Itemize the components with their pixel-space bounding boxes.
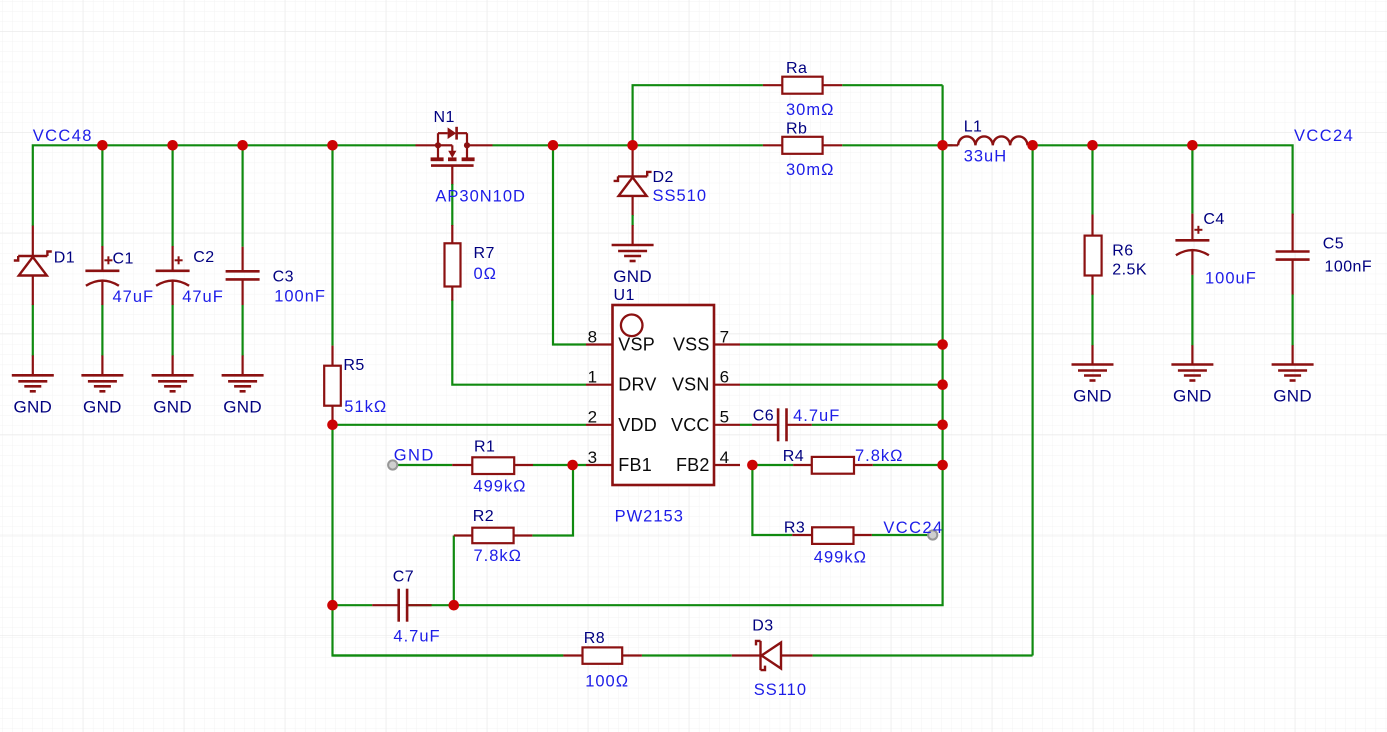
wire C7 junction to bottom corner (333, 605, 564, 655)
wire FB2 junction to R4 (752, 464, 793, 466)
svg-text:GND: GND (223, 397, 262, 416)
svg-text:GND: GND (1173, 387, 1212, 406)
resistor R7 pin bottom (451, 287, 453, 301)
svg-text:AP30N10D: AP30N10D (435, 188, 526, 206)
svg-text:0Ω: 0Ω (474, 265, 498, 283)
svg-text:7.8kΩ: 7.8kΩ (855, 447, 904, 465)
wire C4 top (1191, 145, 1193, 213)
wire Ra branch left vertical (633, 85, 763, 145)
capacitor C3 (226, 270, 260, 273)
svg-text:R7: R7 (474, 245, 495, 262)
wire R5 column top (331, 145, 333, 345)
svg-text:SS510: SS510 (653, 187, 708, 205)
svg-text:VCC: VCC (671, 415, 710, 435)
resistor R5 pins (331, 346, 333, 366)
wire rail L1 to VCC24 corner (1033, 145, 1293, 215)
wire rail mid (N1 to Rb) (493, 144, 763, 146)
svg-text:4.7uF: 4.7uF (793, 407, 840, 425)
diode D2 anode stub (631, 225, 633, 245)
wire VSS pin7 to bus (740, 343, 943, 345)
U1 pin 1 stub (586, 384, 613, 386)
resistor R1 (472, 457, 514, 474)
junction node C7 right (449, 600, 460, 611)
svg-text:GND: GND (613, 267, 652, 286)
U1 pin 7 stub (714, 343, 740, 345)
diode D2 pin bottom (631, 196, 633, 216)
diode D1 pin bottom (32, 275, 34, 305)
svg-text:FB2: FB2 (676, 455, 710, 475)
resistor R5 (324, 366, 341, 406)
op-amp U1 chip body (613, 305, 715, 485)
junction node VDD-R5 (327, 420, 338, 431)
wire D2 anode (631, 215, 633, 226)
capacitor C2 (156, 269, 190, 272)
U1 pin 2 stub (586, 424, 613, 426)
svg-text:DRV: DRV (618, 375, 656, 395)
svg-text:R5: R5 (343, 357, 364, 374)
wire VCC pin5 to C6 (740, 424, 752, 426)
capacitor C5 (1276, 250, 1310, 253)
wire C3 bottom to GND (242, 305, 244, 356)
svg-text:4: 4 (720, 448, 730, 467)
svg-text:R8: R8 (584, 630, 605, 647)
svg-text:GND: GND (394, 447, 435, 465)
wire R2 left leg down to C7 junction (453, 536, 455, 606)
capacitor C3 pin bottom (242, 279, 244, 305)
U1 pin 6 stub (714, 384, 740, 386)
resistor Rb pins (763, 144, 782, 146)
svg-text:R3: R3 (784, 520, 805, 537)
svg-text:R6: R6 (1112, 243, 1133, 260)
ground C5 (1291, 345, 1293, 364)
resistor R2 pins (454, 534, 473, 536)
wire right bus vertical x=942.6 (454, 85, 943, 605)
schottky diode D3 pins (732, 654, 761, 656)
wire C4 bottom to GND (1191, 275, 1193, 346)
diode D1 pin top (32, 226, 34, 256)
wire C6 to bus (812, 424, 943, 426)
svg-text:100nF: 100nF (274, 288, 326, 306)
svg-text:U1: U1 (614, 287, 635, 304)
svg-text:47uF: 47uF (182, 288, 224, 306)
svg-text:R4: R4 (783, 448, 804, 465)
capacitor C7 pins (372, 604, 399, 606)
diode D2 pin top (631, 145, 633, 176)
capacitor C7 (397, 589, 400, 622)
wire C2 top (172, 145, 174, 246)
U1 pin 3 stub (586, 464, 613, 466)
svg-text:SS110: SS110 (754, 681, 807, 699)
net port VCC24 (gray pin) (928, 530, 937, 539)
svg-text:C1: C1 (113, 251, 134, 268)
svg-text:GND: GND (1073, 387, 1112, 406)
svg-text:GND: GND (153, 397, 192, 416)
resistor R6 (1085, 236, 1102, 276)
svg-text:100nF: 100nF (1325, 259, 1373, 276)
svg-text:2.5K: 2.5K (1112, 262, 1147, 279)
wire L1 right to D3 vertical x=1032.6 (1031, 145, 1033, 655)
capacitor C4 pin top (1191, 214, 1193, 241)
svg-text:100uF: 100uF (1205, 270, 1257, 288)
schottky diode D3 (759, 641, 761, 670)
capacitor C1 (85, 269, 119, 272)
ground C3 (242, 355, 244, 375)
junction node C7 left (327, 600, 338, 611)
svg-text:R1: R1 (474, 439, 495, 456)
U1 pin1 marker circle (621, 315, 643, 337)
svg-text:VSP: VSP (618, 335, 655, 355)
svg-text:6: 6 (720, 368, 730, 387)
wire VDD row from R5 junction (333, 424, 587, 426)
resistor R3 pins (792, 534, 812, 536)
wire R6 top (1091, 145, 1093, 214)
wire Ra branch right (842, 84, 942, 86)
svg-text:D3: D3 (752, 618, 773, 635)
wire R1 to FB1 junction and pin3 (533, 464, 586, 466)
wire gate to R7 (451, 184, 453, 226)
svg-text:8: 8 (588, 327, 598, 346)
svg-text:1: 1 (588, 368, 598, 387)
svg-text:30mΩ: 30mΩ (786, 161, 834, 179)
schottky diode D2 (618, 175, 647, 177)
wire R8 to D3 (642, 654, 732, 656)
resistor R7 top stub (451, 225, 453, 243)
wire bottom row R8 left (333, 654, 564, 656)
capacitor C6 pins (752, 424, 778, 426)
wire R5 column to C7 junction (331, 425, 333, 605)
capacitor C1 pin bottom (101, 281, 103, 305)
svg-text:C6: C6 (753, 408, 774, 425)
junction node FB1 (567, 460, 578, 471)
wire R7 to DRV pin1 (452, 300, 586, 385)
wire C1 top (101, 145, 103, 246)
svg-text:VCC24: VCC24 (1294, 127, 1354, 145)
svg-text:7: 7 (720, 327, 730, 346)
svg-text:VSS: VSS (673, 335, 710, 355)
resistor R6 pins (1091, 215, 1093, 236)
capacitor C5 pin bottom (1291, 260, 1293, 295)
svg-text:PW2153: PW2153 (615, 508, 684, 526)
wire rail Rb to L1 (842, 144, 952, 146)
capacitor C2 pin top (172, 246, 174, 271)
svg-text:VCC24: VCC24 (883, 519, 943, 537)
svg-text:GND: GND (83, 397, 122, 416)
svg-text:499kΩ: 499kΩ (814, 549, 867, 567)
svg-text:C3: C3 (273, 269, 294, 286)
svg-text:Rb: Rb (786, 121, 807, 138)
resistor R8 (583, 647, 623, 663)
resistor Rb (782, 137, 822, 154)
svg-text:C2: C2 (193, 249, 214, 266)
svg-text:GND: GND (13, 397, 52, 416)
svg-text:C7: C7 (393, 569, 414, 586)
capacitor C4 pin bottom (1191, 251, 1193, 275)
svg-text:51kΩ: 51kΩ (344, 398, 387, 416)
svg-text:R2: R2 (473, 508, 494, 525)
wire D1 bottom to GND (32, 304, 34, 356)
net port GND (gray pin) (388, 460, 397, 469)
ground D1 (32, 355, 34, 375)
capacitor C2 pin bottom (172, 281, 174, 305)
wire R3 to VCC24 netpin (872, 534, 929, 536)
svg-text:L1: L1 (964, 119, 983, 136)
svg-text:33uH: 33uH (964, 148, 1007, 166)
svg-text:N1: N1 (434, 109, 455, 126)
inductor L1 (948, 136, 1033, 145)
resistor R7 pin top (gate) (451, 165, 453, 186)
zener diode D1 (18, 255, 47, 257)
capacitor C5 pin top (1291, 214, 1293, 252)
capacitor C4 (1175, 239, 1209, 242)
resistor R3 (812, 527, 853, 544)
resistor R4 (812, 457, 854, 474)
wire R4 to bus (873, 464, 943, 466)
capacitor C1 pin top (101, 246, 103, 271)
junction dots on VCC48 rail (97, 140, 108, 151)
svg-text:100Ω: 100Ω (585, 673, 629, 691)
wire GND netpin to R1 (397, 464, 452, 466)
ground C2 (172, 355, 174, 375)
svg-text:499kΩ: 499kΩ (473, 478, 526, 496)
svg-text:D2: D2 (653, 169, 674, 186)
U1 pin 5 stub (714, 424, 740, 426)
svg-text:FB1: FB1 (618, 455, 652, 475)
resistor Ra (782, 77, 822, 94)
svg-text:7.8kΩ: 7.8kΩ (474, 547, 523, 565)
ground D2 (612, 244, 654, 247)
svg-text:47uF: 47uF (113, 288, 155, 306)
wire C2 bottom to GND (172, 304, 174, 356)
capacitor C3 pin top (242, 247, 244, 272)
resistor R2 (472, 528, 513, 544)
svg-text:VDD: VDD (618, 415, 657, 435)
svg-text:5: 5 (720, 408, 730, 427)
capacitor C6 (777, 408, 780, 441)
svg-text:VSN: VSN (672, 375, 710, 395)
svg-text:VCC48: VCC48 (33, 127, 93, 145)
junction node FB2 (747, 460, 758, 471)
ground R6 (1091, 345, 1093, 364)
svg-text:4.7uF: 4.7uF (393, 628, 440, 646)
resistor R1 pins (452, 464, 472, 466)
U1 pin 4 stub (714, 464, 740, 466)
transistor N1 MOSFET (416, 127, 493, 166)
junction dots on right bus (937, 339, 948, 350)
svg-text:GND: GND (1273, 387, 1312, 406)
wire FB2 junction down to R3 row (752, 465, 792, 535)
svg-text:C4: C4 (1203, 211, 1224, 228)
svg-text:C5: C5 (1323, 236, 1344, 253)
wire D3 right to vertical (813, 654, 1033, 656)
ground C4 (1191, 345, 1193, 364)
resistor R8 pins (563, 654, 582, 656)
resistor R7 (445, 243, 461, 286)
wire VCC48 rail left (33, 145, 416, 226)
wire node VSP feed x=553 (553, 145, 586, 344)
wire C5 bottom to GND (1291, 294, 1293, 346)
wire R2 right leg up to FB1 junction (532, 465, 573, 536)
svg-text:2: 2 (588, 408, 598, 427)
svg-text:Ra: Ra (786, 60, 807, 77)
wire C3 top (242, 145, 244, 246)
wire R6 bottom to GND (1091, 294, 1093, 346)
resistor R4 pins (793, 464, 812, 466)
resistor Ra pins (763, 84, 782, 86)
svg-text:D1: D1 (54, 250, 75, 267)
svg-text:30mΩ: 30mΩ (786, 101, 834, 119)
wire C7 left from junction (333, 604, 373, 606)
wire VSN pin6 to bus (740, 384, 943, 386)
wire C1 bottom to GND (101, 304, 103, 356)
wire C7 right to junction (407, 604, 454, 606)
U1 pin 8 stub (586, 343, 613, 345)
svg-text:3: 3 (588, 448, 598, 467)
ground C1 (101, 355, 103, 375)
